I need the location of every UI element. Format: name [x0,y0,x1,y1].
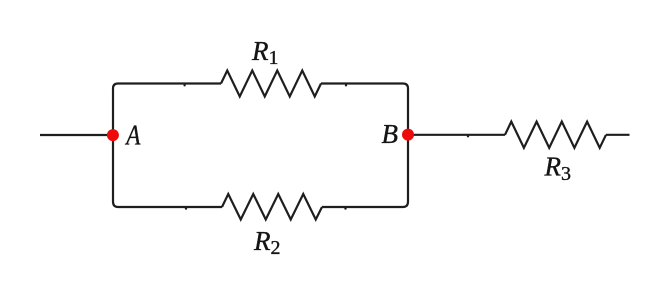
wire: node B to R3 [408,134,505,136]
resistor R3 [505,122,606,148]
wire: bottom branch right (R2 to corner) [322,202,408,208]
wire: top branch right (R1 to corner) [321,84,408,89]
junction mark on top wire right [345,84,347,86]
resistor R2 [222,194,322,220]
wire: top branch left (corner to R1) [113,84,221,89]
wire: right branch vertical through node B [407,89,409,202]
svg-text:R3: R3 [544,152,572,185]
junction mark on wire B to R3 [467,135,469,137]
svg-text:B: B [382,119,399,149]
right lead wire [606,134,630,136]
svg-text:A: A [125,121,142,152]
node B (red junction dot) [402,129,414,141]
resistor R1 [221,71,321,97]
svg-text:R1: R1 [251,36,279,69]
junction mark on bottom wire right [344,207,346,209]
node A (red junction dot) [107,129,119,141]
junction mark on top wire left [183,84,185,86]
junction mark on bottom wire left [185,207,187,209]
svg-text:R2: R2 [253,226,281,259]
wire: bottom branch left (corner to R2) [113,202,222,208]
wire: left branch vertical through node A [112,89,114,202]
left lead wire [40,134,113,136]
